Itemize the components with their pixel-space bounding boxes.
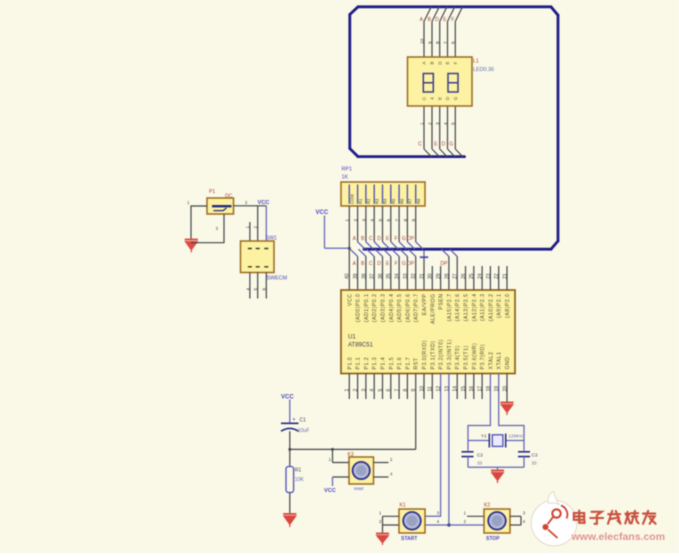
RP1 element R8 <box>415 185 417 204</box>
svg-text:A: A <box>422 61 427 64</box>
wire display top pin 6 <box>454 22 456 58</box>
bus bottom-right chamfer <box>551 241 558 249</box>
bus entry display bottom <box>424 149 431 157</box>
bus entry P0.4 <box>383 249 390 256</box>
svg-text:RP1: RP1 <box>342 167 353 173</box>
wire stub pin 22 <box>498 266 500 290</box>
svg-text:START: START <box>401 536 417 542</box>
svg-text:E: E <box>445 61 450 64</box>
svg-text:24: 24 <box>478 273 484 279</box>
svg-text:L1: L1 <box>473 59 479 65</box>
wire crystal right stub <box>506 440 524 442</box>
bus entry P0.3 <box>375 249 382 256</box>
svg-text:P1: P1 <box>209 189 215 195</box>
svg-text:AT89C51: AT89C51 <box>348 343 374 349</box>
svg-text:9: 9 <box>411 219 417 222</box>
svg-text:3: 3 <box>361 219 367 222</box>
wire RST vertical <box>415 374 417 450</box>
svg-text:(AD5)P0.5: (AD5)P0.5 <box>397 294 403 323</box>
wire P0.7 <box>415 256 417 290</box>
svg-text:4: 4 <box>245 288 250 291</box>
svg-text:XTAL1: XTAL1 <box>497 352 503 370</box>
svg-text:39: 39 <box>353 273 359 279</box>
wire stub pin 8 <box>406 374 408 400</box>
ground <box>501 403 514 416</box>
svg-text:P1.1: P1.1 <box>356 357 362 370</box>
wire K2 pin 1 stub <box>467 515 484 517</box>
svg-text:5: 5 <box>451 122 457 125</box>
wire RP1 pin 7 <box>398 206 400 242</box>
svg-text:SWECM: SWECM <box>267 276 288 282</box>
watermark logo tail <box>548 492 559 505</box>
power bar stem to bus <box>423 250 425 257</box>
svg-text:5: 5 <box>378 389 384 392</box>
svg-text:P1.6: P1.6 <box>397 357 403 370</box>
wire stub pin 23 <box>489 266 491 290</box>
wire RP1 pin 4 <box>373 206 375 242</box>
wire P0.4 <box>390 256 392 290</box>
wire P0.6 <box>406 256 408 290</box>
bus entry RP1 B <box>366 242 373 249</box>
svg-text:14: 14 <box>453 386 459 392</box>
svg-text:F: F <box>451 17 454 23</box>
svg-text:40: 40 <box>345 273 351 279</box>
wire ground stem <box>497 467 499 470</box>
svg-text:32: 32 <box>411 273 417 279</box>
junction C1/R1 <box>288 448 291 451</box>
resistor pack RP1 body <box>341 182 425 206</box>
svg-text:F: F <box>453 61 458 64</box>
bus entry RP1 D <box>383 242 390 249</box>
svg-text:25: 25 <box>469 273 475 279</box>
bus right segment <box>557 15 560 241</box>
svg-text:35: 35 <box>386 273 392 279</box>
wire stub pin 1 <box>348 374 350 400</box>
svg-text:4: 4 <box>370 219 376 222</box>
wire stub pin 25 <box>473 266 475 290</box>
SW1 contact marks 2 <box>256 249 260 267</box>
svg-text:R8: R8 <box>416 198 421 204</box>
bus entry RP1 F <box>399 242 406 249</box>
resistor R1 <box>286 467 294 493</box>
svg-text:K1: K1 <box>400 502 406 508</box>
bus entry P0.5 <box>392 249 399 256</box>
svg-text:R4: R4 <box>383 198 388 204</box>
bus entry display bottom <box>432 149 439 157</box>
watermark text dianzifashaoyou (vector hanzi) <box>574 511 656 524</box>
wire XTAL1 <box>499 374 524 451</box>
svg-text:33: 33 <box>477 461 483 466</box>
wire K2 pin 3 <box>510 515 521 517</box>
svg-text:26: 26 <box>461 273 467 279</box>
svg-text:23: 23 <box>486 273 492 279</box>
bus entry RP1 A <box>358 242 365 249</box>
wire SW1 pin 1 stub <box>249 222 251 241</box>
wire stub pin 11 <box>431 374 433 400</box>
crystal Y1 <box>489 434 505 448</box>
svg-text:P1.2: P1.2 <box>364 357 370 370</box>
bus entry display top F <box>455 7 462 22</box>
pushbutton K2 body <box>484 509 510 533</box>
svg-text:1: 1 <box>345 389 351 392</box>
svg-text:VCC: VCC <box>258 200 270 206</box>
svg-text:10K: 10K <box>295 477 305 483</box>
wire P0.5 <box>398 256 400 290</box>
SW1 contact marks 3 <box>264 249 268 267</box>
wire RP1 pin 3 <box>365 206 367 242</box>
svg-text:6: 6 <box>451 41 457 44</box>
wire stub pin 3 <box>365 374 367 400</box>
wire C3 lower <box>523 457 525 468</box>
wire K2 right common <box>520 516 522 525</box>
bus entry RP1 E <box>391 242 398 249</box>
wire crystal left stub <box>468 440 489 442</box>
svg-text:R1: R1 <box>358 198 363 204</box>
junction VCC/COM <box>348 247 351 250</box>
wire K1 pin 1 <box>383 515 400 517</box>
svg-text:(A13)P2.5: (A13)P2.5 <box>464 294 470 322</box>
svg-text:38: 38 <box>361 273 367 279</box>
svg-text:D: D <box>435 17 439 23</box>
wire junction to R1 <box>289 449 291 466</box>
wire display top pin 8 <box>439 22 441 58</box>
svg-text:R5: R5 <box>391 198 396 204</box>
wire P0.0 <box>357 256 359 290</box>
svg-text:E: E <box>437 97 442 100</box>
svg-text:15: 15 <box>461 386 467 392</box>
svg-text:GND: GND <box>505 356 511 369</box>
wire R1 to ground <box>289 493 291 514</box>
svg-text:(AD1)P0.1: (AD1)P0.1 <box>364 294 370 323</box>
wire RP1 pin 9 <box>415 206 417 242</box>
svg-text:6: 6 <box>262 288 267 291</box>
wire SW1 bottom pin 4 <box>249 273 251 299</box>
svg-text:D: D <box>442 142 446 148</box>
wire stub pin 5 <box>382 374 384 400</box>
SW1 contact marks 1 <box>248 249 252 267</box>
svg-text:8: 8 <box>403 389 409 392</box>
jack sleeve contact <box>214 208 227 211</box>
svg-text:P3.7(RD): P3.7(RD) <box>480 344 486 370</box>
svg-text:7: 7 <box>443 41 449 44</box>
svg-text:31: 31 <box>419 273 425 279</box>
svg-text:10: 10 <box>419 38 425 44</box>
RP1 element R6 <box>398 185 400 204</box>
wire stub pin 24 <box>481 266 483 290</box>
capacitor C3 <box>518 452 530 457</box>
wire display top pin 10 <box>423 22 425 58</box>
svg-text:P1.4: P1.4 <box>381 357 387 370</box>
wire RP1 COM / MCU VCC pin <box>348 206 350 290</box>
svg-text:29: 29 <box>436 273 442 279</box>
svg-text:reset: reset <box>354 486 364 491</box>
display digit 1 <box>423 74 433 93</box>
svg-text:(A10)P2.2: (A10)P2.2 <box>488 294 494 322</box>
wire K3 VCC stem <box>332 477 334 486</box>
svg-text:ALE/PROG: ALE/PROG <box>430 294 436 325</box>
svg-text:C: C <box>369 261 373 267</box>
wire K3 pin 3 <box>333 476 350 478</box>
wire crystal bottom <box>468 466 524 468</box>
svg-text:+: + <box>293 417 296 423</box>
wire RST horizontal <box>290 448 416 450</box>
svg-text:LED0.36: LED0.36 <box>473 67 494 73</box>
svg-text:5: 5 <box>253 288 258 291</box>
svg-text:1: 1 <box>245 226 250 229</box>
display digit 2 <box>448 74 458 93</box>
svg-text:2: 2 <box>253 226 258 229</box>
svg-text:P3.1(TXD): P3.1(TXD) <box>430 340 436 369</box>
switch SW1 body <box>241 241 275 273</box>
svg-text:1: 1 <box>419 122 425 125</box>
wire GND pin 20 <box>506 374 508 403</box>
svg-text:17: 17 <box>478 386 484 392</box>
bus entry (A14)P2.6 <box>450 249 457 256</box>
svg-text:30: 30 <box>428 273 434 279</box>
svg-text:22: 22 <box>494 273 500 279</box>
bus entry display bottom <box>448 149 455 157</box>
bus entry display top E <box>448 7 455 22</box>
wire stub pin 10 <box>423 374 425 400</box>
svg-text:EA/VPP: EA/VPP <box>422 293 428 315</box>
wire stub pin 26 <box>465 266 467 290</box>
wire P1 pin 2 to VCC <box>234 205 267 207</box>
svg-text:www.elecfans.com: www.elecfans.com <box>571 531 666 543</box>
svg-text:R2: R2 <box>366 198 371 204</box>
bus entry P0.0 <box>350 249 357 256</box>
bus lower horizontal segment <box>364 248 551 251</box>
wire RP1 pin 2 <box>357 206 359 242</box>
svg-text:G: G <box>402 261 406 267</box>
svg-text:3: 3 <box>361 389 367 392</box>
svg-text:21: 21 <box>502 273 508 279</box>
wire display top pin 7 <box>447 22 449 58</box>
power bar symbol VCC <box>420 256 428 258</box>
wire stub pin 2 <box>357 374 359 400</box>
watermark logo pad dot <box>543 524 549 530</box>
svg-text:33: 33 <box>532 461 538 466</box>
svg-text:P1.7: P1.7 <box>405 357 411 370</box>
capacitor C2 <box>462 452 474 457</box>
MCU U1 AT89C51 body <box>341 290 515 374</box>
svg-text:DP: DP <box>407 261 415 267</box>
RP1 element R2 <box>365 185 367 204</box>
svg-text:R3: R3 <box>374 198 379 204</box>
svg-text:F: F <box>394 261 397 267</box>
wire K3 pin 2 <box>374 462 389 464</box>
svg-text:2: 2 <box>427 122 433 125</box>
svg-text:5: 5 <box>378 219 384 222</box>
svg-text:D: D <box>377 261 381 267</box>
wire K1 pin 2 <box>383 524 400 526</box>
bus entry P0.1 <box>359 249 366 256</box>
svg-text:VCC: VCC <box>316 210 329 216</box>
svg-text:P3.4(T0): P3.4(T0) <box>455 345 461 369</box>
svg-text:(A12)P2.4: (A12)P2.4 <box>472 294 478 322</box>
K3 button cap <box>353 462 370 479</box>
svg-text:(A9)P2.1: (A9)P2.1 <box>497 294 503 318</box>
watermark logo trace 3 <box>561 506 567 519</box>
wire display bottom pin 4 <box>447 106 449 149</box>
K2 button cap <box>488 512 506 530</box>
svg-text:10: 10 <box>419 386 425 392</box>
bus entry display bottom <box>455 149 462 157</box>
svg-text:C1: C1 <box>300 418 307 424</box>
wire K3 pin 1 <box>333 462 350 464</box>
ground <box>185 240 198 253</box>
ground <box>491 471 504 484</box>
wire SW1 pin 2 <box>257 206 259 241</box>
svg-text:(AD6)P0.6: (AD6)P0.6 <box>405 294 411 323</box>
jack center pin <box>212 205 232 207</box>
svg-text:34: 34 <box>395 273 401 279</box>
svg-text:37: 37 <box>370 273 376 279</box>
svg-text:1K: 1K <box>342 175 349 181</box>
svg-text:G: G <box>449 142 453 148</box>
wire SW1 bottom pin 5 <box>257 273 259 299</box>
ground <box>283 514 296 527</box>
wire P0.3 <box>382 256 384 290</box>
svg-text:VCC: VCC <box>347 294 353 306</box>
svg-text:B: B <box>430 61 435 64</box>
bus top segment <box>358 5 551 8</box>
svg-text:U1: U1 <box>348 335 356 341</box>
pushbutton K1 body <box>399 509 425 533</box>
K1 button cap <box>403 512 421 530</box>
svg-text:7: 7 <box>395 219 401 222</box>
svg-text:P1.0: P1.0 <box>347 357 353 370</box>
svg-text:DP: DP <box>440 261 448 267</box>
svg-text:(A8)P2.0: (A8)P2.0 <box>505 294 511 318</box>
svg-text:6: 6 <box>386 389 392 392</box>
svg-text:(AD2)P0.2: (AD2)P0.2 <box>372 294 378 323</box>
wire XTAL2 <box>468 374 490 451</box>
svg-text:Y1: Y1 <box>481 434 487 439</box>
RP1 element R7 <box>406 185 408 204</box>
DC jack P1 body <box>207 198 234 214</box>
RP1 element R5 <box>390 185 392 204</box>
ground <box>376 534 389 546</box>
svg-text:3: 3 <box>435 122 441 125</box>
svg-text:P3.6(WR): P3.6(WR) <box>472 343 478 370</box>
svg-text:12MHz: 12MHz <box>509 434 524 439</box>
bus bottom-left chamfer <box>350 149 358 157</box>
wire EA/VPP <box>423 257 425 290</box>
svg-text:28: 28 <box>444 273 450 279</box>
svg-text:(AD4)P0.4: (AD4)P0.4 <box>389 294 395 323</box>
svg-text:27: 27 <box>453 273 459 279</box>
wire stub pin 16 <box>473 374 475 400</box>
svg-text:36: 36 <box>378 273 384 279</box>
capacitor C1 polarized <box>281 422 299 424</box>
wire stub pin 7 <box>398 374 400 400</box>
wire P1 pin 1 <box>191 206 207 239</box>
svg-text:P1.3: P1.3 <box>372 357 378 370</box>
svg-text:R7: R7 <box>408 198 413 204</box>
svg-text:STOP: STOP <box>486 536 500 542</box>
svg-text:6: 6 <box>386 219 392 222</box>
wire K2 pin 4 <box>510 524 521 526</box>
wire K3 tap <box>332 449 334 462</box>
junction K3 tap <box>331 448 334 451</box>
svg-text:(AD0)P0.0: (AD0)P0.0 <box>356 294 362 323</box>
bus entry P0.2 <box>367 249 374 256</box>
wire P1 pin 3 loop <box>191 214 224 243</box>
svg-text:2: 2 <box>353 389 359 392</box>
wire stub pin 4 <box>373 374 375 400</box>
7-segment display L1 body <box>408 57 473 106</box>
wire P3.2 to K1 <box>425 374 441 517</box>
svg-text:9: 9 <box>427 41 433 44</box>
wire VCC horizontal <box>325 247 350 249</box>
svg-text:(A11)P2.3: (A11)P2.3 <box>480 294 486 321</box>
svg-text:P3.5(T1): P3.5(T1) <box>464 345 470 369</box>
bus entry P0.6 <box>400 249 407 256</box>
bus entry display top D <box>440 7 447 22</box>
bus entry RP1 C <box>374 242 381 249</box>
svg-text:P3.3(INT1): P3.3(INT1) <box>447 339 453 369</box>
RP1 element COM <box>348 185 350 204</box>
svg-text:8: 8 <box>403 219 409 222</box>
svg-text:10uF: 10uF <box>298 428 309 434</box>
svg-text:C3: C3 <box>532 453 538 458</box>
svg-text:4: 4 <box>443 122 449 125</box>
bus entry P0.7 <box>408 249 415 256</box>
svg-text:VCC: VCC <box>324 488 336 494</box>
pushbutton K3 body <box>349 457 374 484</box>
svg-text:F: F <box>394 236 397 242</box>
bus top-left chamfer <box>350 7 358 15</box>
watermark logo trace 1 <box>548 517 554 525</box>
svg-text:XTAL2: XTAL2 <box>488 352 494 370</box>
wire stub pin 14 <box>456 374 458 400</box>
svg-text:P3.2(INT0): P3.2(INT0) <box>439 339 445 369</box>
wire stub pin 30 <box>431 266 433 290</box>
svg-text:COM: COM <box>350 194 355 204</box>
svg-text:8: 8 <box>435 41 441 44</box>
svg-text:K2: K2 <box>484 502 490 508</box>
svg-text:C: C <box>369 236 373 242</box>
wire RP1 pin 5 <box>382 206 384 242</box>
wire P0.2 <box>373 256 375 290</box>
bus entry display top B <box>432 7 439 22</box>
svg-text:2: 2 <box>353 219 359 222</box>
svg-text:VCC: VCC <box>281 395 294 401</box>
svg-text:R1: R1 <box>295 468 302 474</box>
svg-text:4: 4 <box>370 389 376 392</box>
wire P0.1 <box>365 256 367 290</box>
bus top-right chamfer <box>551 7 558 15</box>
RP1 element R3 <box>373 185 375 204</box>
watermark logo pad ring <box>552 509 560 517</box>
bus left segment <box>348 15 351 149</box>
bus entry display bottom <box>440 149 447 157</box>
wire stub pin 29 <box>440 266 442 290</box>
watermark logo circle <box>531 500 577 546</box>
svg-text:P3.0(RXD): P3.0(RXD) <box>422 340 428 370</box>
svg-text:7: 7 <box>395 389 401 392</box>
svg-text:(AD7)P0.7: (AD7)P0.7 <box>414 294 420 323</box>
svg-text:G: G <box>453 96 458 100</box>
svg-text:P1.5: P1.5 <box>389 357 395 370</box>
bus entry RP1 DP <box>416 242 423 249</box>
wire RP1 pin 8 <box>406 206 408 242</box>
svg-text:C2: C2 <box>477 453 483 458</box>
wire stub pin 17 <box>481 374 483 400</box>
bus entry RP1 G <box>407 242 414 249</box>
wire VCC vertical <box>324 216 326 249</box>
wire C2 lower <box>467 457 469 468</box>
